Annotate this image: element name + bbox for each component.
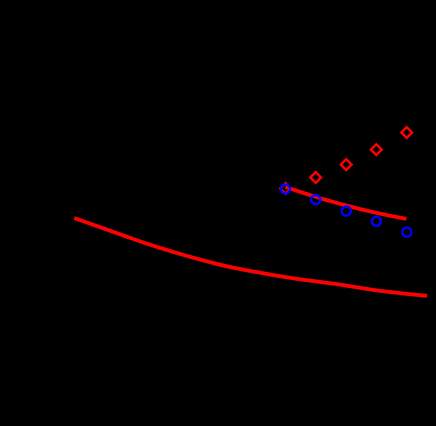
blue circle marker C3 [342,207,351,216]
blue circle marker C1 [281,184,290,193]
red diamond marker D2 [310,172,321,183]
long red theory curve [74,218,427,296]
red diamond marker D3 [341,159,352,170]
blue circle marker C4 [372,217,381,226]
blue circle marker C2 [311,195,320,204]
red diamond marker D1 [280,183,291,194]
short red fit line through blue circles [286,187,407,219]
red diamond marker D5 [401,127,412,138]
blue circle marker C5 [402,228,411,237]
red diamond marker D4 [371,144,382,155]
